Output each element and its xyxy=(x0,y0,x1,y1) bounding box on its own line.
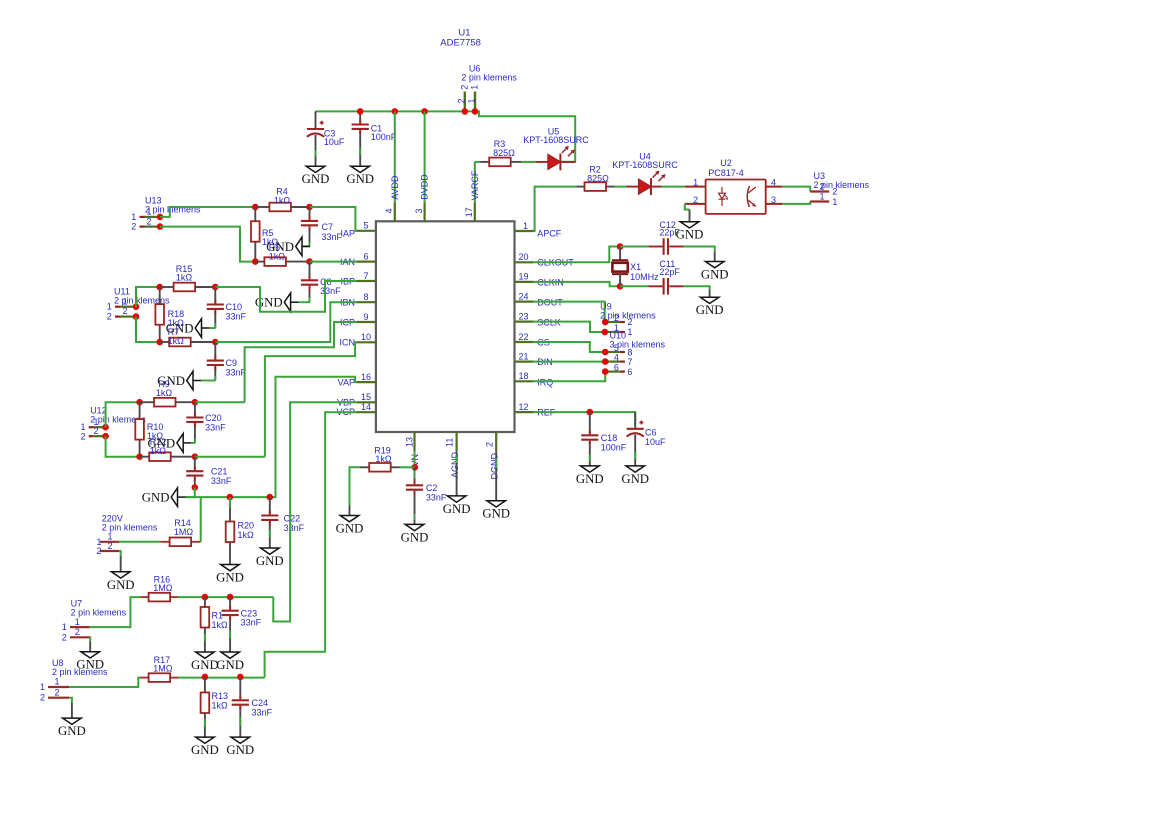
pin number 8 xyxy=(363,292,368,302)
pin name U7 2 xyxy=(62,632,67,642)
label U4 xyxy=(639,152,651,162)
net label IAN xyxy=(340,257,355,267)
pin number 220V 2 xyxy=(107,541,112,551)
pin 18 stub xyxy=(515,380,534,382)
svg-text:10uF: 10uF xyxy=(324,137,345,147)
net label CS xyxy=(537,337,550,347)
value C8 33nF xyxy=(320,286,341,296)
junction R9 left xyxy=(136,399,143,406)
net label VAP xyxy=(338,377,355,387)
label C8 xyxy=(320,277,332,287)
pin number 15 xyxy=(361,392,371,402)
pin number U6 2 xyxy=(459,85,469,90)
svg-text:C24: C24 xyxy=(252,698,269,708)
pin number 18 xyxy=(519,371,529,381)
label U7 xyxy=(71,598,83,608)
svg-text:R20: R20 xyxy=(238,521,255,531)
label C1 xyxy=(371,124,383,134)
ground R20 xyxy=(216,497,244,584)
pin name U10 8 xyxy=(627,347,632,357)
label R9 xyxy=(158,379,170,389)
pin 14 stub xyxy=(356,411,376,413)
svg-text:GND: GND xyxy=(701,268,729,282)
label U12 xyxy=(90,406,107,416)
svg-text:1kΩ: 1kΩ xyxy=(212,620,229,630)
svg-text:GND: GND xyxy=(576,472,604,486)
wire C11 to gnd xyxy=(684,286,710,290)
ground U2 pin2 xyxy=(676,210,704,242)
label C24 xyxy=(252,698,269,708)
svg-text:2: 2 xyxy=(484,442,494,447)
capacitor C1 xyxy=(352,111,369,166)
svg-text:R13: R13 xyxy=(212,691,229,701)
ground VAP rail xyxy=(142,488,186,507)
junction R13 top xyxy=(202,674,209,681)
label C12 xyxy=(659,220,676,230)
pin name AGND xyxy=(450,451,460,478)
value R4 1k xyxy=(274,195,291,205)
pin name 220V 2 xyxy=(96,546,101,556)
wire X1 bottom to C11 xyxy=(620,285,649,287)
svg-text:2: 2 xyxy=(40,693,45,703)
capacitor C21 xyxy=(186,457,203,488)
svg-text:C20: C20 xyxy=(205,413,222,423)
svg-text:2: 2 xyxy=(146,216,151,226)
net label REF xyxy=(537,408,556,418)
svg-text:6: 6 xyxy=(363,251,368,261)
svg-text:22pF: 22pF xyxy=(659,267,680,277)
resistor R16 xyxy=(141,593,179,602)
label U11 xyxy=(114,287,130,297)
value R16 1M xyxy=(153,583,173,593)
net label IBP xyxy=(340,276,355,286)
wire U12 pin1 to R9 xyxy=(106,402,140,427)
svg-text:2: 2 xyxy=(456,98,466,103)
resistor R5 xyxy=(251,207,260,262)
capacitor C2 xyxy=(406,467,423,524)
svg-text:18: 18 xyxy=(519,371,529,381)
wire R17 rail xyxy=(178,677,265,679)
wire APCF to R2 xyxy=(534,187,577,231)
svg-text:GND: GND xyxy=(621,472,649,486)
led U5 xyxy=(535,146,575,170)
pin 23 stub xyxy=(515,321,534,323)
ground R19 xyxy=(336,506,364,536)
svg-text:1: 1 xyxy=(693,177,698,187)
net label VBP xyxy=(337,398,355,408)
junction R7 right C9 xyxy=(212,339,219,346)
crystal X1 xyxy=(612,247,628,287)
pin number U3 1 xyxy=(820,192,825,202)
svg-text:ICN: ICN xyxy=(340,337,356,347)
svg-text:11: 11 xyxy=(445,438,455,447)
pin number 23 xyxy=(519,311,529,321)
pin number 20 xyxy=(519,252,529,262)
svg-text:17: 17 xyxy=(464,207,474,217)
svg-text:33nF: 33nF xyxy=(205,423,226,433)
ground 220V xyxy=(107,556,135,592)
optocoupler U2 xyxy=(706,180,766,214)
ground C10 xyxy=(166,319,210,338)
svg-text:1: 1 xyxy=(122,296,127,306)
wire C12 to gnd xyxy=(684,247,715,253)
svg-text:8: 8 xyxy=(627,347,632,357)
svg-text:1: 1 xyxy=(467,98,477,103)
ground U7 xyxy=(76,642,104,672)
junction X1 top xyxy=(617,243,624,250)
svg-text:23: 23 xyxy=(519,311,529,321)
svg-text:2: 2 xyxy=(75,627,80,637)
label R20 xyxy=(238,521,255,531)
svg-text:6: 6 xyxy=(614,363,619,373)
wire R22 rail to ICN xyxy=(195,456,265,458)
wire DVDD xyxy=(424,111,426,202)
svg-text:2 pin klemens: 2 pin klemens xyxy=(52,667,108,677)
net label SCLK xyxy=(537,317,561,327)
pin number U10 5 xyxy=(614,343,619,353)
U2 pin 2 xyxy=(685,203,706,205)
wire R19 right to VN xyxy=(400,466,415,468)
label U7 2 pin klemens xyxy=(71,607,127,617)
pin 9 stub xyxy=(356,321,376,323)
svg-text:15: 15 xyxy=(361,392,371,402)
resistor R13 xyxy=(201,678,210,738)
wire VCP xyxy=(265,412,357,677)
pin number U7 2 xyxy=(75,627,80,637)
value R20 1k xyxy=(238,530,255,540)
resistor R9 xyxy=(140,398,195,407)
svg-text:KPT-1608SURC: KPT-1608SURC xyxy=(523,135,589,145)
label 220V 2 pin klemens xyxy=(102,522,158,532)
svg-text:ADE7758: ADE7758 xyxy=(440,37,481,48)
svg-text:GND: GND xyxy=(266,240,294,254)
pin name U9 1 xyxy=(627,327,632,337)
junction R22 left xyxy=(136,453,143,460)
value R19 1k xyxy=(375,454,392,464)
wire R16 rail xyxy=(178,596,273,598)
ground C2 xyxy=(401,524,429,544)
resistor R2 xyxy=(576,182,615,191)
connector U6 pin 1 xyxy=(474,92,476,112)
junction R22 right C21 xyxy=(192,453,199,460)
ground C8 xyxy=(255,293,299,312)
pin name U11 2 xyxy=(107,312,112,322)
ground C23 xyxy=(216,652,244,672)
svg-text:33nF: 33nF xyxy=(226,368,247,378)
pin 2 DGND stub xyxy=(495,432,497,451)
pin name DGND xyxy=(489,453,499,480)
wire IAN xyxy=(310,261,357,263)
pin 13 VN stub xyxy=(413,432,415,451)
wire REF xyxy=(534,412,636,424)
svg-text:1: 1 xyxy=(62,622,67,632)
ic U1 body xyxy=(376,221,515,432)
value R9 1k xyxy=(156,388,173,398)
value C20 33nF xyxy=(205,423,226,433)
svg-text:1kΩ: 1kΩ xyxy=(212,701,229,711)
svg-text:GND: GND xyxy=(191,658,219,672)
svg-text:6: 6 xyxy=(627,367,632,377)
net label IRQ xyxy=(537,378,553,388)
value C9 33nF xyxy=(226,368,247,378)
pin number U10 4 xyxy=(614,353,619,363)
wire VARCF xyxy=(474,162,476,202)
svg-text:1: 1 xyxy=(627,327,632,337)
capacitor C7 xyxy=(301,207,318,246)
resistor R20 xyxy=(226,497,235,564)
junction C23 top xyxy=(227,594,234,601)
connector U8 pin 1 xyxy=(48,686,69,688)
svg-text:1kΩ: 1kΩ xyxy=(238,530,255,540)
pin 15 stub xyxy=(356,401,376,403)
svg-text:GND: GND xyxy=(302,172,330,186)
label C9 xyxy=(226,358,238,368)
capacitor C20 xyxy=(186,402,203,443)
svg-text:825Ω: 825Ω xyxy=(587,173,609,183)
junction R9 right C20 xyxy=(192,399,199,406)
svg-text:1MΩ: 1MΩ xyxy=(174,527,194,537)
svg-text:GND: GND xyxy=(401,530,429,544)
label U13 2 pin klemens xyxy=(145,205,201,215)
pin number U2 1 xyxy=(693,177,698,187)
wire 220V pin1 to R14 xyxy=(119,541,160,543)
wire X1 top to C12 xyxy=(620,246,649,248)
pin name U10 7 xyxy=(627,357,632,367)
svg-text:IRQ: IRQ xyxy=(537,378,553,388)
resistor R19 xyxy=(360,463,400,472)
connector U9 pin 2 xyxy=(602,319,625,326)
svg-text:1kΩ: 1kΩ xyxy=(274,195,291,205)
svg-text:GND: GND xyxy=(216,571,244,585)
value R18 1k xyxy=(168,318,185,328)
pin number U12 1 xyxy=(93,417,98,427)
svg-text:100nF: 100nF xyxy=(371,132,397,142)
svg-text:825Ω: 825Ω xyxy=(493,148,515,158)
pin number U10 6 xyxy=(614,363,619,373)
ground U8 xyxy=(58,703,86,738)
pin number U13 2 xyxy=(146,216,151,226)
wire IBN xyxy=(215,302,356,342)
svg-text:U2: U2 xyxy=(720,158,732,168)
wire top power rail xyxy=(316,110,476,112)
svg-text:2: 2 xyxy=(693,195,698,205)
label C23 xyxy=(241,608,258,618)
value C24 33nF xyxy=(252,707,273,717)
value R1 1k xyxy=(212,620,229,630)
svg-text:R1: R1 xyxy=(212,611,224,621)
net label DOUT xyxy=(537,297,563,307)
junction R4 right C7 xyxy=(306,204,313,211)
wire R2 to U4 xyxy=(615,186,626,188)
pin number 2 xyxy=(484,442,494,447)
label R14 xyxy=(174,518,191,528)
value R15 1k xyxy=(176,273,193,283)
connector U7 pin 2 xyxy=(70,636,90,638)
ground C1 xyxy=(346,166,374,186)
svg-text:20: 20 xyxy=(519,252,529,262)
pin name U13 1 xyxy=(131,212,136,222)
connector U12 pin 1 xyxy=(89,424,109,431)
value U4 KPT-1608SURC xyxy=(612,160,678,170)
svg-text:GND: GND xyxy=(443,502,471,516)
svg-text:16: 16 xyxy=(361,372,371,382)
svg-text:C10: C10 xyxy=(226,302,243,312)
pin number 11 xyxy=(445,438,455,447)
pin name U3 1 xyxy=(832,197,837,207)
svg-text:2: 2 xyxy=(459,85,469,90)
label U3 2 pin klemens xyxy=(814,180,870,190)
connector U8 pin 2 xyxy=(48,697,69,699)
pin name U6 1 xyxy=(467,98,477,103)
resistor R3 xyxy=(480,158,521,167)
svg-text:2: 2 xyxy=(832,187,837,197)
U2 pin 1 xyxy=(685,186,706,188)
pin name U12 1 xyxy=(80,422,85,432)
svg-text:PC817-4: PC817-4 xyxy=(708,168,744,178)
wire U2 pin2 to gnd xyxy=(685,204,690,210)
U2 pin 3 xyxy=(766,203,783,205)
wire AVDD xyxy=(394,111,396,202)
pin name U12 2 xyxy=(80,432,85,442)
capacitor C22 xyxy=(261,497,278,548)
label C22 name xyxy=(284,514,301,524)
ground R13 xyxy=(191,719,219,757)
wire VN xyxy=(414,451,416,467)
label U8 xyxy=(52,658,64,668)
label U9 2 pin klemens xyxy=(600,310,656,320)
pin name U10 6 xyxy=(627,367,632,377)
capacitor C12 xyxy=(649,238,684,255)
resistor R6 xyxy=(255,257,309,266)
wire U7 pin1 to R16 xyxy=(90,597,141,627)
value R13 1k xyxy=(212,701,229,711)
connector U11 pin 1 xyxy=(115,303,139,310)
svg-text:14: 14 xyxy=(361,402,371,412)
svg-text:33nF: 33nF xyxy=(226,312,247,322)
svg-text:C7: C7 xyxy=(322,222,334,232)
svg-text:2: 2 xyxy=(107,541,112,551)
label U5 xyxy=(548,127,560,137)
svg-text:5: 5 xyxy=(363,221,368,231)
svg-text:X1: X1 xyxy=(630,262,641,272)
label U8 2 pin klemens xyxy=(52,667,108,677)
junction DVDD rail xyxy=(421,108,428,115)
svg-text:1MΩ: 1MΩ xyxy=(153,664,173,674)
svg-text:1: 1 xyxy=(146,207,151,217)
pin number 10 xyxy=(361,332,371,342)
ground AGND xyxy=(443,451,471,516)
svg-text:5: 5 xyxy=(614,343,619,353)
ground DGND xyxy=(482,451,510,520)
wire U11 pin2 to R7 xyxy=(136,317,160,342)
svg-text:C2: C2 xyxy=(426,483,438,493)
svg-text:1: 1 xyxy=(470,85,480,90)
wire R9 rail to ICP xyxy=(195,401,245,403)
ground C20 xyxy=(147,434,191,453)
svg-text:2: 2 xyxy=(131,222,136,232)
pin 11 AGND stub xyxy=(456,432,458,451)
wire DOUT xyxy=(534,302,606,322)
svg-text:1kΩ: 1kΩ xyxy=(375,454,392,464)
net label IBN xyxy=(340,298,355,308)
ground C3 xyxy=(302,166,330,186)
svg-text:GND: GND xyxy=(147,436,175,450)
label C20 xyxy=(205,413,222,423)
svg-text:C22: C22 xyxy=(284,514,301,524)
pin number U9 2 xyxy=(614,313,619,323)
svg-text:1MΩ: 1MΩ xyxy=(153,583,173,593)
svg-text:GND: GND xyxy=(107,578,135,592)
pin name VARCF xyxy=(470,170,480,200)
net label ICN xyxy=(340,337,356,347)
svg-text:GND: GND xyxy=(226,743,254,757)
svg-text:GND: GND xyxy=(346,172,374,186)
label R2 xyxy=(589,165,601,175)
label R1 xyxy=(212,611,224,621)
svg-text:24: 24 xyxy=(519,291,529,301)
junction X1 bottom xyxy=(617,283,624,290)
pin 21 stub xyxy=(515,361,534,363)
capacitor C11 xyxy=(649,278,684,295)
value R6 1k xyxy=(269,251,286,261)
svg-text:1kΩ: 1kΩ xyxy=(156,388,173,398)
value R5 1k xyxy=(262,237,279,247)
resistor R10 xyxy=(135,402,144,457)
svg-text:GND: GND xyxy=(58,724,86,738)
junction U6 pin1 rail xyxy=(472,108,479,115)
pin number 14 xyxy=(361,402,371,412)
wire VAP rail xyxy=(185,487,194,497)
value C21 33nF xyxy=(211,476,232,486)
pin number 3 xyxy=(414,208,424,213)
capacitor C8 xyxy=(301,262,318,303)
wire SCLK xyxy=(534,322,605,332)
value R2 825 xyxy=(587,173,609,183)
value C1 100nF xyxy=(371,132,397,142)
svg-text:1kΩ: 1kΩ xyxy=(176,273,193,283)
capacitor C10 xyxy=(207,287,224,328)
svg-text:2: 2 xyxy=(627,317,632,327)
svg-text:1kΩ: 1kΩ xyxy=(168,336,185,346)
label R3 xyxy=(494,139,506,149)
pin number U9 1 xyxy=(614,323,619,333)
label C10 xyxy=(226,302,243,312)
pin 5 stub xyxy=(356,230,376,232)
pin name U9 2 xyxy=(627,317,632,327)
wire CLKOUT xyxy=(534,247,620,263)
svg-text:AGND: AGND xyxy=(450,451,460,478)
wire IRQ xyxy=(534,372,606,382)
wire CS xyxy=(534,342,606,352)
resistor R7 xyxy=(160,338,216,347)
pin number 7 xyxy=(363,271,368,281)
svg-text:7: 7 xyxy=(627,357,632,367)
value R3 825 xyxy=(493,148,515,158)
wire U11 pin1 to R15 xyxy=(136,287,160,307)
value C7 33nF xyxy=(322,232,343,242)
junction U6 pin2 rail xyxy=(462,108,469,115)
label U10 xyxy=(610,331,627,341)
pin number 1 xyxy=(523,221,528,231)
svg-text:C21: C21 xyxy=(211,467,228,477)
svg-text:3: 3 xyxy=(414,208,424,213)
label U13 xyxy=(145,196,162,206)
svg-text:2: 2 xyxy=(107,312,112,322)
value R17 1M xyxy=(153,664,173,674)
pin 20 stub xyxy=(515,261,534,263)
pin number 5 xyxy=(363,221,368,231)
label R4 xyxy=(276,187,288,197)
